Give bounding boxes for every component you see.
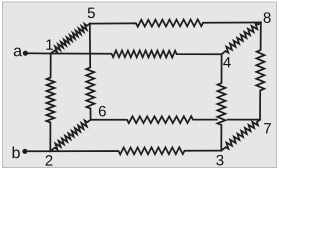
terminal b dot <box>22 149 27 154</box>
node 2 label <box>46 155 53 165</box>
resistor on diagonal edge 4-8 with connecting wires <box>222 22 261 54</box>
resistor on diagonal edge 1-5 with connecting wires <box>51 24 90 54</box>
resistor on edge 5-6 (left rear) with connecting wires <box>86 24 94 120</box>
wire terminal a to node 1 <box>25 52 50 54</box>
wire terminal b to node 2 <box>25 150 50 152</box>
resistor on edge 1-2 (left front) with connecting wires <box>46 54 54 152</box>
resistor on edge 6-7 (bottom rear) with connecting wires <box>91 116 217 123</box>
resistor on edge 5-8 (top rear) with connecting wires <box>90 19 261 26</box>
resistor on diagonal edge 2-6 with connecting wires <box>50 120 90 152</box>
terminal a label <box>14 48 22 57</box>
node 4 label <box>223 57 231 67</box>
node 1 label <box>46 39 52 49</box>
wire 6-7 continuation after crossing edge 4-3 <box>227 119 260 121</box>
resistor on edge 4-3 (right front) with connecting wires <box>217 54 225 150</box>
terminal a dot <box>23 51 28 56</box>
panel background <box>3 2 277 168</box>
node 7 label <box>264 123 271 133</box>
resistor on edge 8-7 (right rear) with connecting wires <box>256 22 264 119</box>
node 8 label <box>264 12 271 23</box>
resistor on edge 1-4 (top front) with connecting wires <box>51 50 222 57</box>
resistor on edge 2-3 (bottom front) with connecting wires <box>50 147 221 154</box>
node 3 label <box>216 155 223 166</box>
resistor on diagonal edge 3-7 with connecting wires <box>221 120 260 151</box>
terminal b label <box>13 147 20 159</box>
node 5 label <box>88 8 95 18</box>
node 6 label <box>99 106 106 117</box>
